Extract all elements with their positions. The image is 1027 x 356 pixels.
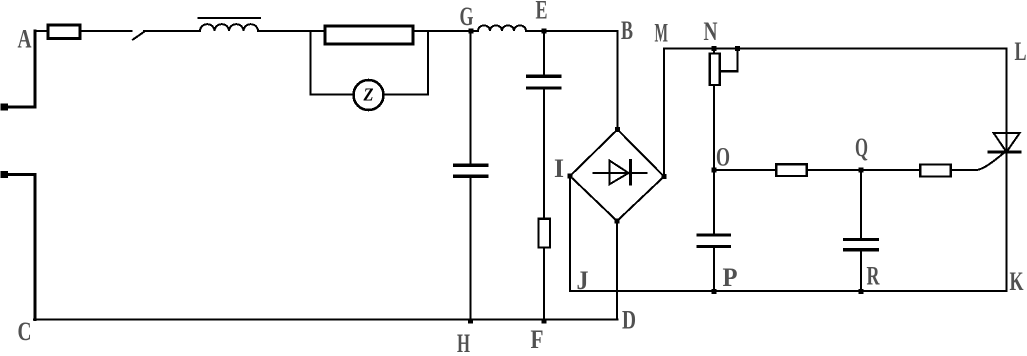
svg-text:O: O <box>716 143 730 172</box>
svg-text:J: J <box>577 266 589 295</box>
svg-text:Q: Q <box>855 133 868 162</box>
svg-text:R: R <box>867 262 880 291</box>
svg-text:K: K <box>1010 267 1025 296</box>
svg-text:A: A <box>18 25 32 54</box>
svg-text:B: B <box>621 16 633 45</box>
svg-text:F: F <box>531 325 544 354</box>
svg-text:E: E <box>536 0 548 25</box>
svg-text:H: H <box>457 329 470 356</box>
svg-text:Z: Z <box>363 85 374 105</box>
svg-text:M: M <box>655 19 669 48</box>
svg-text:P: P <box>723 263 738 292</box>
svg-text:I: I <box>554 154 564 183</box>
svg-text:C: C <box>18 317 32 346</box>
svg-text:N: N <box>704 17 718 46</box>
svg-text:G: G <box>460 2 474 31</box>
svg-text:L: L <box>1015 37 1027 66</box>
svg-text:D: D <box>622 306 636 335</box>
